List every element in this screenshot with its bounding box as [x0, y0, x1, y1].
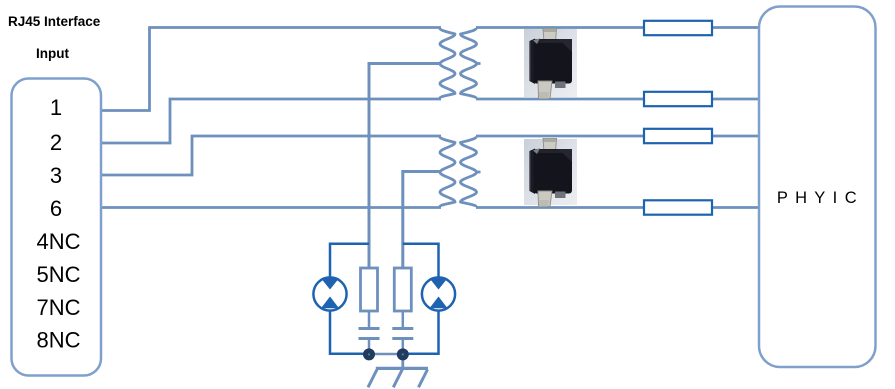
svg-text:2: 2	[50, 130, 62, 155]
svg-text:7NC: 7NC	[36, 295, 80, 320]
svg-text:3: 3	[50, 163, 62, 188]
svg-text:6: 6	[50, 196, 62, 221]
svg-text:1: 1	[50, 95, 62, 120]
svg-text:8NC: 8NC	[36, 328, 80, 353]
svg-text:RJ45 Interface: RJ45 Interface	[8, 14, 101, 29]
svg-text:P H Y I C: P H Y I C	[777, 189, 858, 207]
svg-text:4NC: 4NC	[36, 229, 80, 254]
svg-text:Input: Input	[36, 46, 69, 61]
svg-text:5NC: 5NC	[36, 262, 80, 287]
